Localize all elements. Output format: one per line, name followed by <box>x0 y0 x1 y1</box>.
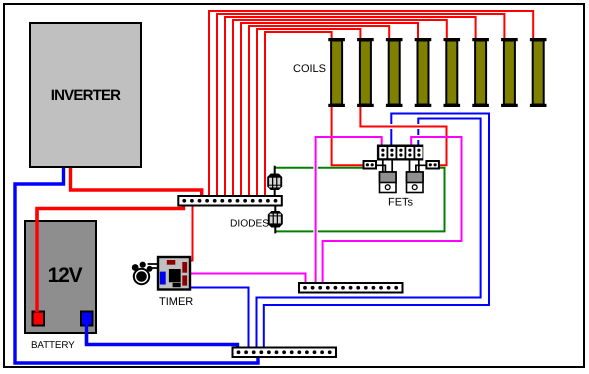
svg-text:FETs: FETs <box>388 197 414 209</box>
svg-text:INVERTER: INVERTER <box>51 87 121 104</box>
svg-text:COILS: COILS <box>293 63 326 75</box>
svg-text:TIMER: TIMER <box>159 296 193 308</box>
svg-text:DIODES: DIODES <box>230 219 269 230</box>
svg-text:12V: 12V <box>48 264 83 287</box>
svg-text:BATTERY: BATTERY <box>31 340 75 351</box>
